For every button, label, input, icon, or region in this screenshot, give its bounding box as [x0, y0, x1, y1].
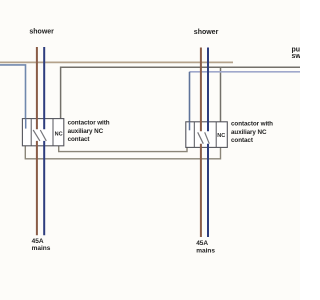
- svg-text:contactor with: contactor with: [231, 121, 273, 128]
- wire: tan mains feed horizontal: [0, 61, 233, 63]
- svg-text:contact: contact: [231, 137, 254, 144]
- wire: gray tee drop to right contactor NC top: [220, 67, 222, 122]
- svg-text:45A: 45A: [32, 238, 44, 245]
- svg-text:contact: contact: [68, 136, 91, 143]
- wire: steel blue drop to right contactor coil top: [189, 72, 191, 122]
- svg-text:switch: switch: [292, 53, 301, 60]
- svg-text:45A: 45A: [196, 240, 208, 247]
- switch blade left pole 2: [40, 130, 46, 141]
- wire: left coil blue from left edge to left contactor top: [0, 65, 26, 119]
- contactor box right: [186, 122, 228, 148]
- svg-text:auxiliary NC: auxiliary NC: [68, 128, 104, 135]
- wire: interlock gray left coil bottom to right NC bottom: [25, 146, 220, 159]
- wire: gray NC auxiliary top line left contactor to right edge: [61, 67, 300, 118]
- contactor box left: [22, 119, 63, 146]
- svg-text:auxiliary NC: auxiliary NC: [231, 129, 267, 136]
- switch blade right pole 2: [205, 132, 210, 143]
- wire: periwinkle pull switch line horizontal: [190, 71, 301, 73]
- switch blade right pole 1: [198, 132, 204, 143]
- wire: right shower brown live: [200, 48, 202, 238]
- svg-text:shower: shower: [194, 29, 219, 36]
- wire: left shower brown live: [36, 47, 38, 235]
- svg-text:mains: mains: [32, 245, 51, 252]
- wire: right shower navy neutral: [207, 48, 209, 238]
- svg-text:shower: shower: [29, 29, 54, 36]
- wire: right coil stub inside box: [189, 122, 191, 131]
- wire: left shower navy neutral: [43, 47, 45, 235]
- wire: interlock gray right coil bottom to left NC bottom: [59, 146, 187, 152]
- svg-text:NC: NC: [217, 133, 225, 139]
- svg-text:contactor with: contactor with: [68, 119, 110, 126]
- svg-text:NC: NC: [55, 131, 63, 137]
- svg-text:mains: mains: [196, 247, 215, 254]
- switch blade left pole 1: [33, 130, 40, 141]
- wire: left coil stub inside box: [25, 119, 27, 129]
